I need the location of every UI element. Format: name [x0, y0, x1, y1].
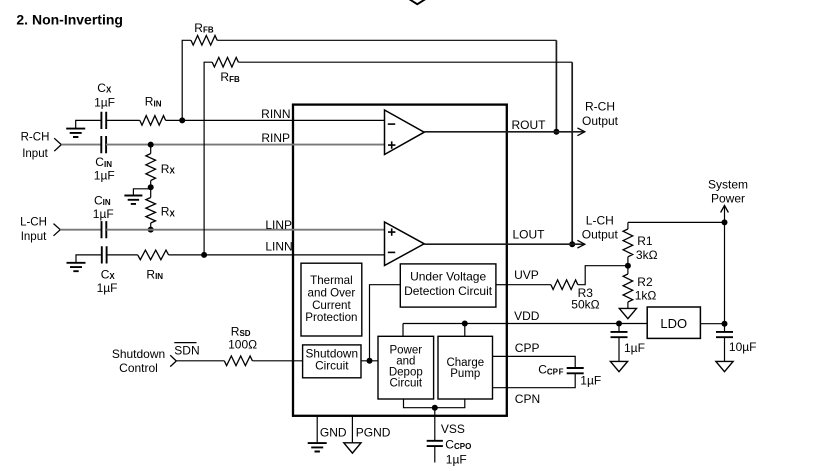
capacitor CIN (R-CH) 1uF [101, 136, 106, 153]
wire VSS [434, 408, 436, 441]
label RSD [231, 324, 251, 338]
label R1 value 3k [636, 248, 658, 262]
label CIN (L-CH) [94, 193, 111, 207]
svg-text:LINN: LINN [265, 240, 292, 254]
pin label LINN [265, 240, 292, 254]
resistor R3 50k [551, 280, 578, 290]
label CX value 1uF [97, 281, 118, 295]
wire RSD to shutdown circuit [252, 360, 302, 362]
svg-text:1µF: 1µF [446, 453, 467, 466]
svg-text:Input: Input [21, 231, 47, 243]
svg-text:Circuit: Circuit [390, 378, 423, 390]
svg-text:System: System [708, 178, 748, 192]
node shutdown net junction [367, 358, 373, 364]
node VDD internal junction [462, 321, 468, 327]
svg-text:PGND: PGND [356, 426, 391, 440]
pin label ROUT [512, 118, 547, 132]
svg-text:10µF: 10µF [729, 340, 757, 354]
svg-text:Circuit: Circuit [315, 358, 349, 372]
label CX (R-CH) [97, 81, 112, 95]
capacitor CCPO 1uF [427, 441, 443, 463]
node RINP/RX junction [148, 142, 154, 148]
label R2 [637, 275, 653, 289]
wire CCPF to CPN [493, 373, 576, 387]
wire R3 to R1/R2 node [578, 266, 628, 285]
L-CH output arrow [577, 240, 584, 248]
ground (RX midpoint) [124, 196, 142, 204]
block: Charge Pump [438, 336, 493, 399]
wire R-CH input to CIN (RINP net) [61, 144, 101, 146]
capacitor 1uF (VDD) [611, 324, 628, 362]
op-amp A2 minus input [388, 251, 395, 253]
label RSD value 100 [228, 338, 257, 352]
svg-text:Power: Power [711, 192, 745, 206]
wire SDN to RSD [176, 360, 224, 362]
pin label LINP [265, 218, 292, 232]
pin label CPN [515, 392, 540, 406]
svg-text:Protection: Protection [305, 311, 357, 324]
svg-text:L-CH: L-CH [20, 216, 47, 228]
system power arrow [721, 206, 729, 223]
node VDD/C-LDO junction [616, 321, 622, 327]
pin label LOUT [513, 227, 546, 241]
svg-text:1µF: 1µF [97, 281, 118, 295]
IC U1 body [293, 105, 507, 416]
wire RINN node to op-amp [182, 119, 384, 121]
node RFB1/ROUT junction [553, 129, 559, 135]
svg-text:1µF: 1µF [580, 374, 601, 388]
wire ROUT [424, 131, 584, 133]
resistor RIN (L-CH) [138, 250, 169, 260]
svg-text:CPP: CPP [515, 341, 540, 355]
svg-text:R2: R2 [637, 275, 653, 289]
resistor RX (upper) [146, 145, 156, 188]
svg-text:Output: Output [582, 227, 619, 241]
wire RFB1 vertical from RINN [182, 40, 191, 120]
wire CX to RIN [107, 254, 138, 256]
svg-text:Pump: Pump [450, 368, 480, 380]
wire UVDC to UVP pin [496, 284, 507, 286]
capacitor CCPF 1uF [567, 368, 584, 373]
label RFB (R-CH) [194, 21, 214, 35]
node LDO output junction [722, 321, 728, 327]
op-amp A1 (R-CH) [385, 110, 425, 155]
node RX/LINP junction [148, 227, 154, 233]
block: Power and Depop Circuit [378, 336, 434, 399]
svg-text:R-CH: R-CH [21, 132, 50, 144]
label CCPO value 1uF [446, 453, 467, 467]
label System Power [708, 178, 748, 206]
wire CPP to CCPF [493, 356, 576, 368]
pin label RINP [261, 131, 290, 145]
wire LDO output [700, 323, 724, 325]
wire RIN to LINN node [169, 254, 205, 256]
label CX value 1uF [94, 95, 115, 109]
svg-text:1kΩ: 1kΩ [635, 288, 657, 302]
title [16, 12, 123, 28]
capacitor CX (L-CH) 1uF [102, 246, 107, 263]
svg-text:CPN: CPN [515, 392, 540, 406]
block: Under Voltage Detection Circuit [400, 264, 496, 307]
wire RFB2 to LOUT [238, 62, 572, 244]
wire LOUT [424, 243, 584, 245]
R-CH output arrow [577, 128, 584, 136]
label CCPO [445, 437, 471, 451]
svg-text:Output: Output [582, 114, 619, 128]
wire RX midpoint to ground [133, 189, 150, 196]
wire CIN to RINP pin [106, 144, 384, 146]
node VSS junction [432, 405, 438, 411]
svg-text:Thermal: Thermal [310, 274, 353, 287]
resistor RX (lower) [146, 187, 156, 229]
pin label PGND [356, 426, 391, 440]
resistor RSD 100 [224, 356, 252, 366]
label CIN (R-CH) [95, 155, 112, 169]
label CCPF [538, 363, 563, 377]
node RX midpoint [148, 184, 154, 190]
wire VDD to LDO [403, 323, 647, 325]
L-CH input label [20, 216, 47, 243]
wire ground to CX [76, 120, 102, 128]
wire RFB1 to ROUT [217, 40, 556, 132]
ground (10uF cap, open triangle) [716, 361, 733, 371]
label 1uF (VDD) [624, 341, 645, 355]
svg-text:VSS: VSS [441, 422, 465, 436]
svg-text:Detection Circuit: Detection Circuit [404, 284, 493, 298]
node system power junction [722, 219, 728, 225]
ground (CX L-CH) [67, 263, 86, 271]
wire UVP pin to R3 [507, 284, 551, 286]
pin label GND [320, 426, 347, 440]
pin label UVP [514, 268, 539, 282]
label CCPF value 1uF [580, 374, 601, 388]
label CIN value 1uF [94, 169, 115, 183]
node RINN junction [179, 117, 185, 123]
label RX (upper) [161, 162, 176, 176]
wire RIN to RINN node [166, 119, 183, 121]
ground (R2, open triangle) [619, 308, 636, 318]
R-CH Output label [582, 99, 619, 128]
label 10uF [729, 340, 757, 354]
wire GND pin [316, 416, 318, 443]
op-amp A1 minus input [388, 123, 395, 125]
svg-text:1µF: 1µF [94, 95, 115, 109]
svg-text:R-CH: R-CH [585, 99, 615, 113]
svg-text:LOUT: LOUT [513, 227, 546, 241]
block: Thermal and Over Current Protection [301, 263, 362, 336]
label SDN (active low) [174, 343, 199, 358]
pin label RINN [261, 107, 290, 121]
label CX (L-CH) [101, 267, 116, 281]
svg-text:Input: Input [22, 148, 48, 160]
svg-text:ROUT: ROUT [512, 118, 547, 132]
op-amp A2 plus input [388, 228, 395, 235]
resistor RIN (R-CH) [140, 116, 166, 126]
svg-text:R1: R1 [637, 234, 653, 248]
svg-text:GND: GND [320, 426, 347, 440]
ground (CX R-CH) [66, 129, 85, 137]
node R1/R2/R3 junction [625, 263, 631, 269]
svg-text:1µF: 1µF [94, 169, 115, 183]
label R3 value 50k [571, 297, 599, 311]
ground (VDD cap, open triangle) [610, 361, 627, 371]
resistor RFB (L-CH) [212, 57, 238, 67]
wire CIN to LINP pin [106, 229, 384, 231]
resistor RFB (R-CH) [191, 36, 217, 46]
svg-text:UVP: UVP [514, 268, 539, 282]
connector fragment (cropped arrow tip at top) [409, 0, 426, 4]
ground (PGND, open triangle) [344, 443, 361, 453]
label R3 [578, 286, 594, 300]
LDO U2 [647, 307, 700, 338]
shutdown connector [170, 355, 176, 366]
svg-text:50kΩ: 50kΩ [571, 297, 599, 311]
label R1 [637, 234, 653, 248]
block: Shutdown Circuit [303, 345, 361, 378]
wire L-CH input to CIN (LINP net) [60, 229, 101, 231]
svg-text:1µF: 1µF [93, 207, 114, 221]
wire VDD to charge pump [464, 324, 466, 337]
wire system power to LDO [724, 222, 726, 323]
label RIN (L-CH) [146, 267, 163, 281]
node LINN junction [201, 252, 207, 258]
wire power block to VSS [404, 399, 465, 408]
R-CH input connector [54, 138, 61, 151]
svg-text:2. Non-Inverting: 2. Non-Inverting [16, 12, 123, 28]
pin label CPP [515, 341, 540, 355]
svg-text:L-CH: L-CH [586, 214, 614, 228]
ground (GND) [308, 443, 327, 451]
label RX (lower) [161, 205, 176, 219]
svg-text:Shutdown: Shutdown [112, 347, 165, 361]
resistor R2 1k [623, 266, 633, 309]
label LDO [660, 316, 687, 331]
wire VDD to power block [402, 324, 404, 337]
label CIN value 1uF [93, 207, 114, 221]
pin label VSS [441, 422, 465, 436]
svg-text:SDN: SDN [174, 343, 199, 357]
capacitor CIN (L-CH) 1uF [102, 221, 107, 238]
svg-text:Under Voltage: Under Voltage [410, 270, 486, 284]
svg-text:VDD: VDD [514, 309, 540, 323]
R-CH input label [21, 132, 50, 161]
wire PGND pin [351, 416, 353, 443]
node RFB2/LOUT junction [569, 241, 575, 247]
wire UVDC to shutdown net [370, 285, 401, 361]
resistor R1 3k [623, 222, 633, 265]
svg-text:100Ω: 100Ω [228, 338, 257, 352]
label R2 value 1k [635, 288, 657, 302]
wire system power rail [628, 221, 725, 223]
label RIN (R-CH) [145, 95, 162, 109]
svg-text:Control: Control [119, 361, 158, 375]
svg-text:LDO: LDO [660, 316, 687, 331]
svg-text:RINP: RINP [261, 131, 290, 145]
L-CH input connector [54, 224, 61, 236]
capacitor CX (R-CH) 1uF [101, 112, 106, 129]
wire CX to RIN [106, 119, 140, 121]
Shutdown Control label [112, 347, 165, 375]
svg-text:3kΩ: 3kΩ [636, 248, 658, 262]
capacitor 10uF (LDO out) [716, 324, 733, 362]
op-amp A1 plus input [388, 141, 395, 148]
wire shutdown circuit to power block [361, 360, 378, 362]
wire RFB2 vertical from LINN [204, 62, 212, 255]
svg-text:and Over: and Over [308, 286, 356, 299]
wire ground to CX [76, 255, 102, 263]
L-CH Output label [582, 214, 619, 242]
svg-text:LINP: LINP [265, 218, 292, 232]
svg-text:RINN: RINN [261, 107, 290, 121]
svg-text:1µF: 1µF [624, 341, 645, 355]
label RFB (L-CH) [220, 70, 240, 84]
wire LINN node to op-amp [204, 254, 384, 256]
op-amp A2 (L-CH) [385, 222, 425, 266]
pin label VDD [514, 309, 540, 323]
